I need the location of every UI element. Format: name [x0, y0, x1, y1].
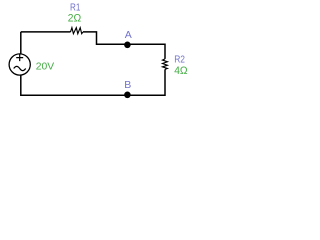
svg-text:A: A [125, 29, 132, 41]
wire node A to right rail [128, 44, 166, 59]
svg-text:R2: R2 [174, 54, 185, 66]
wire top rail left [21, 31, 71, 33]
wire bottom rail [21, 75, 128, 95]
voltage source V1 [9, 54, 54, 75]
svg-text:4Ω: 4Ω [174, 65, 187, 77]
resistor R2 [163, 54, 188, 77]
node B [124, 79, 131, 98]
wire from R1 to step corner [83, 32, 128, 44]
svg-text:20V: 20V [36, 61, 55, 72]
node A [124, 29, 132, 48]
wire source to top rail [20, 32, 22, 54]
wire right rail lower [128, 69, 166, 95]
svg-text:B: B [124, 79, 131, 91]
resistor R1 [68, 1, 83, 33]
svg-text:2Ω: 2Ω [68, 12, 81, 24]
